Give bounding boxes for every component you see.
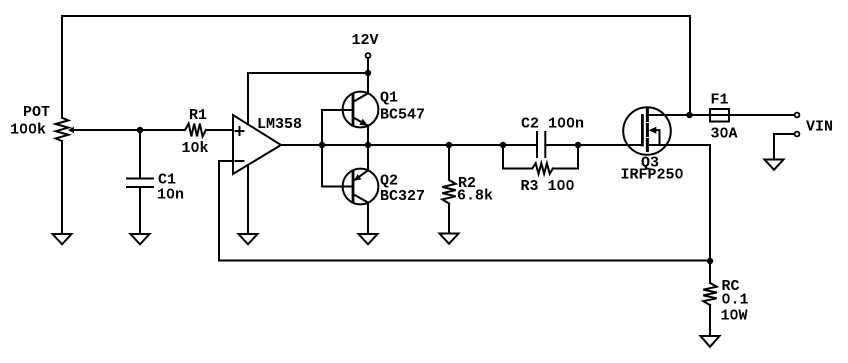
- wire VIN- to ground: [774, 134, 794, 160]
- svg-text:R1: R1: [189, 107, 207, 124]
- terminal 12V: [366, 53, 371, 58]
- ground (RC): [701, 336, 720, 347]
- fuse F1 30A: [690, 114, 710, 116]
- wire left drop to POT: [61, 16, 63, 118]
- wire gate: [578, 144, 642, 146]
- POT wiper arrow: [74, 129, 141, 131]
- resistor R3 100: [503, 145, 532, 169]
- resistor R2 6.8k: [448, 145, 450, 180]
- op-amp U1 LM358: [233, 115, 281, 174]
- wire top rail: [62, 15, 690, 17]
- svg-text:C2 100n: C2 100n: [521, 115, 584, 132]
- terminal VIN+: [795, 113, 800, 118]
- node emitter junction: [365, 142, 371, 148]
- node R2 junction: [446, 142, 452, 148]
- op-amp plus input sign: [236, 127, 244, 135]
- op-amp minus input sign: [236, 160, 244, 162]
- svg-text:LM358: LM358: [257, 116, 302, 133]
- svg-text:Q1: Q1: [380, 89, 398, 106]
- wire op-amp output bus: [281, 144, 503, 146]
- wire source: [647, 144, 710, 146]
- wire drain: [647, 114, 690, 116]
- ground (R2): [440, 234, 459, 244]
- node junction POT/C1/R1: [137, 127, 143, 133]
- ground (C1): [131, 234, 150, 244]
- transistor Q1 BC547: [343, 92, 379, 128]
- svg-text:BC327: BC327: [380, 188, 425, 205]
- svg-text:R3 100: R3 100: [521, 178, 575, 195]
- svg-text:100k: 100k: [10, 122, 46, 139]
- wire 12V rail: [248, 72, 368, 74]
- terminal VIN-: [795, 132, 800, 137]
- svg-text:F1: F1: [711, 92, 729, 109]
- mosfet body-diode arrow: [655, 129, 660, 131]
- node drain junction: [686, 112, 692, 118]
- resistor R1 10k: [140, 129, 185, 131]
- node source/feedback junction: [707, 258, 713, 264]
- svg-text:12V: 12V: [352, 32, 379, 49]
- wire feedback bottom rail: [219, 260, 710, 262]
- transistor Q2 BC327: [343, 169, 379, 205]
- ground (Q2): [359, 234, 378, 244]
- wire op-amp V- to ground: [247, 165, 249, 234]
- zero glyph counter patches: [22, 126, 25, 131]
- ground (VIN): [765, 160, 784, 170]
- wire base tie: [321, 110, 323, 187]
- wire right drop to drain node: [689, 16, 691, 115]
- wire op-amp V+: [247, 73, 249, 124]
- capacitor C2 100n: [503, 144, 537, 146]
- svg-text:6.8k: 6.8k: [457, 187, 493, 204]
- svg-text:IRFP250: IRFP250: [621, 167, 684, 184]
- node C2 right junction: [575, 142, 581, 148]
- svg-text:BC547: BC547: [380, 106, 425, 123]
- node op-amp output junction: [319, 142, 325, 148]
- capacitor C1 10n: [139, 130, 141, 179]
- ground (POT): [53, 234, 72, 244]
- potentiometer POT 100k: [56, 118, 69, 141]
- wire POT bottom to ground: [61, 141, 63, 234]
- wire minus input feedback: [219, 161, 233, 261]
- wire 12V to Q1 collector: [367, 73, 369, 93]
- node C2 left junction: [500, 142, 506, 148]
- svg-text:VIN: VIN: [806, 119, 833, 136]
- resistor RC 0.1 10W: [709, 261, 711, 283]
- svg-text:Q2: Q2: [380, 172, 398, 189]
- mosfet Q3 IRFP250: [623, 107, 671, 155]
- ground (op-amp): [239, 234, 258, 244]
- node 12V junction: [365, 70, 371, 76]
- svg-text:POT: POT: [23, 104, 50, 121]
